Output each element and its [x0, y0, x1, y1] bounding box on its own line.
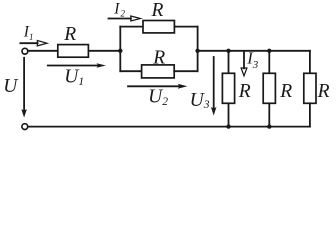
wire rail corner to R6	[309, 51, 311, 74]
svg-text:R: R	[63, 24, 76, 45]
wire bottom branch right	[174, 70, 197, 72]
resistor R6 (vertical)	[304, 73, 316, 103]
node E junction dot	[226, 124, 230, 128]
terminal bottom-left	[22, 124, 28, 130]
svg-text:U: U	[3, 76, 19, 97]
wire R6 to bottom rail	[309, 103, 311, 126]
wire right vertical of parallel pair	[197, 27, 199, 72]
terminal top-left	[22, 48, 28, 54]
wire left vertical of parallel pair	[119, 27, 121, 72]
wire bottom rail	[28, 126, 310, 128]
svg-text:R: R	[152, 47, 165, 68]
wire rail to R5	[268, 51, 270, 74]
current arrow I1	[20, 41, 47, 46]
wire bottom branch left	[120, 70, 141, 72]
resistor R5 (vertical)	[263, 73, 275, 103]
svg-text:R: R	[151, 0, 164, 21]
wire R4 to bottom rail	[228, 103, 230, 126]
voltage arrow U3	[211, 57, 217, 116]
svg-text:R: R	[279, 81, 292, 102]
node F junction dot	[267, 124, 271, 128]
voltage arrow U1	[48, 63, 106, 68]
resistor R4 (vertical)	[222, 73, 234, 103]
svg-text:R: R	[317, 81, 330, 102]
wire top branch left	[120, 26, 143, 28]
wire rail to R4	[228, 51, 230, 74]
svg-text:R: R	[238, 81, 251, 102]
node D junction dot	[267, 49, 271, 53]
resistor R2 (top parallel)	[143, 21, 174, 33]
node B junction dot	[195, 49, 199, 53]
wire R1 to node A	[89, 50, 120, 52]
wire terminal to R1	[28, 50, 58, 52]
wire R5 to bottom rail	[268, 103, 270, 126]
current arrow I2	[109, 16, 141, 21]
voltage arrow U2	[128, 84, 187, 89]
wire top rail	[198, 50, 310, 52]
node C junction dot	[226, 49, 230, 53]
voltage arrow U	[21, 58, 27, 118]
wire top branch right	[174, 26, 197, 28]
node A junction dot	[118, 49, 122, 53]
resistor R3 (bottom parallel)	[142, 65, 175, 78]
resistor R1 (series)	[58, 45, 89, 58]
current arrow I3	[241, 51, 247, 75]
